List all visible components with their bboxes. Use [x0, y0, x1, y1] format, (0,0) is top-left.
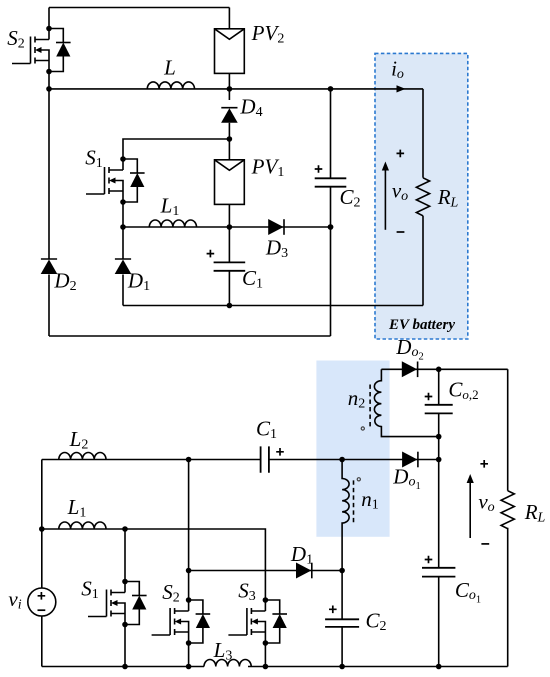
svg-text:S2: S2 [7, 26, 25, 52]
wire Do2 rail y369 [381, 368, 507, 370]
node left-mid junction [46, 86, 52, 92]
node n1 top junction [339, 457, 345, 463]
wire left rail [48, 8, 50, 337]
svg-text:RL: RL [524, 500, 546, 526]
wire right rail RL bottom [507, 369, 509, 666]
svg-text:C1: C1 [242, 266, 263, 292]
node L1 left junction [120, 224, 126, 230]
diode Do2 [402, 361, 418, 377]
inductor L3 [204, 660, 251, 667]
node C1 bottom junction [227, 303, 233, 309]
svg-text:Co,2: Co,2 [448, 378, 478, 403]
svg-text:Do1: Do1 [392, 465, 420, 492]
node rail S1 [122, 664, 128, 670]
wire PV2 column [228, 8, 230, 140]
svg-text:EV battery: EV battery [388, 317, 455, 333]
capacitor Co1 [422, 568, 455, 577]
node D4 anode junction [227, 136, 233, 142]
label plus vi [38, 592, 46, 600]
node S2 D1 junction [186, 568, 192, 574]
svg-text:Co1: Co1 [455, 578, 481, 605]
svg-text:L2: L2 [69, 427, 89, 453]
label plus vo bottom [480, 460, 488, 468]
diode D1 bottom [296, 563, 312, 579]
svg-text:S3: S3 [238, 579, 256, 605]
winding n2 [374, 369, 438, 436]
wire RL column [422, 89, 424, 306]
svg-text:L3: L3 [213, 638, 233, 664]
label plus C2 [315, 165, 323, 173]
svg-text:vo: vo [478, 490, 494, 516]
svg-text:L: L [163, 56, 176, 80]
node PV1 bottom junction [227, 224, 233, 230]
inductor L2 [59, 453, 106, 460]
svg-text:vi: vi [8, 587, 21, 613]
label minus vi [38, 609, 46, 611]
arrow vo bottom [469, 482, 471, 539]
svg-text:D4: D4 [239, 95, 262, 121]
node PV2 bottom junction [227, 86, 233, 92]
diode D3 [268, 219, 284, 235]
label plus Co1 [425, 556, 433, 564]
svg-text:PV1: PV1 [251, 155, 285, 181]
svg-text:S1: S1 [85, 146, 103, 172]
wire C1 column [228, 227, 230, 306]
label plus C1 bottom [276, 448, 284, 456]
capacitor C1 bottom [261, 446, 269, 472]
node rail S3 [263, 664, 269, 670]
mosfet S1 bottom [88, 579, 147, 628]
inductor L1 [149, 220, 196, 227]
svg-text:S2: S2 [162, 580, 180, 606]
wire S1 source to L1 node [122, 202, 124, 306]
node S1 drain junction [122, 526, 128, 532]
node D1 cathode junction [339, 568, 345, 574]
capacitor C1 [214, 262, 246, 270]
winding n1 [342, 460, 349, 571]
wire S1 column [124, 529, 126, 667]
svg-text:D1: D1 [290, 542, 313, 568]
EV battery dashed box [375, 53, 468, 339]
node rail C2 [339, 664, 345, 670]
label minus vo bottom [481, 543, 489, 545]
svg-text:D1: D1 [127, 269, 150, 295]
wire main top rail y459 [42, 459, 439, 461]
mosfet S1 [86, 156, 145, 205]
node Do1 cathode junction [436, 457, 442, 463]
solar panel PV2 [215, 29, 245, 74]
label plus vo top [397, 150, 405, 158]
mosfet S2 bottom [152, 597, 211, 646]
diode D1 [115, 259, 132, 274]
mosfet S2 [12, 26, 71, 75]
mosfet S3 bottom [228, 597, 287, 646]
node C1 left junction [186, 457, 192, 463]
label plus C2 bottom [329, 606, 337, 614]
wire D1 rail y570 [189, 570, 343, 572]
wire top rail [49, 7, 229, 9]
svg-text:L1: L1 [67, 495, 87, 521]
polarity dot n2 [361, 427, 364, 430]
diode Do1 [402, 452, 418, 468]
node C2 top junction [328, 86, 334, 92]
svg-text:C2: C2 [339, 185, 360, 211]
wire L1 rail y529 [42, 529, 266, 571]
inductor L [147, 82, 194, 89]
diode D4 [221, 108, 238, 123]
wire left rail bottom circuit [41, 460, 43, 667]
label plus Co2 [425, 393, 433, 401]
svg-text:C1: C1 [256, 417, 277, 443]
svg-text:D2: D2 [53, 269, 76, 295]
svg-text:S1: S1 [81, 577, 99, 603]
arrow io current [397, 85, 406, 92]
svg-text:L1: L1 [160, 194, 180, 220]
svg-text:D3: D3 [265, 236, 288, 262]
wire L1 rail [123, 226, 331, 228]
node rail S2 [186, 664, 192, 670]
diode D2 [41, 259, 58, 274]
wire C2 column [330, 89, 332, 336]
wire bottom rail upper [123, 305, 423, 307]
source vi [28, 588, 56, 616]
capacitor C2 bottom [325, 619, 359, 627]
node D3 cathode junction [328, 224, 334, 230]
resistor RL bottom [501, 491, 514, 529]
label plus C1 [207, 250, 215, 258]
wire bottom rail [42, 666, 508, 668]
capacitor C2 [315, 178, 347, 186]
wire PV1 column [228, 139, 230, 227]
node C2 D3 junction [328, 224, 334, 230]
transformer shaded box [316, 361, 389, 537]
core dashes n2 [369, 385, 371, 429]
wire C2 column bottom [341, 571, 343, 667]
label minus vo top [397, 231, 405, 233]
wire S3 column [264, 571, 266, 667]
solar panel PV1 [215, 160, 245, 205]
wire Co2 column [438, 369, 440, 666]
svg-text:C2: C2 [365, 609, 386, 635]
node L1 left junction [39, 526, 45, 532]
wire S1 drain link [123, 139, 229, 159]
labels of top circuit [7, 21, 458, 333]
node rail Co1 [436, 664, 442, 670]
inductor L1 bottom [59, 522, 106, 529]
wire mid rail with io [49, 88, 423, 90]
wire S2 column [188, 460, 190, 667]
core dashes n1 [353, 480, 355, 522]
svg-text:PV2: PV2 [251, 21, 285, 47]
polarity dot n1 [357, 478, 360, 481]
capacitor Co2 [425, 405, 453, 414]
labels of bottom circuit [8, 335, 545, 664]
wire bottom rail lower [49, 335, 331, 337]
arrow vo top [384, 169, 386, 230]
node n2 bottom junction [436, 434, 442, 440]
resistor RL top [416, 178, 429, 216]
node Do2 cathode junction [436, 367, 442, 373]
